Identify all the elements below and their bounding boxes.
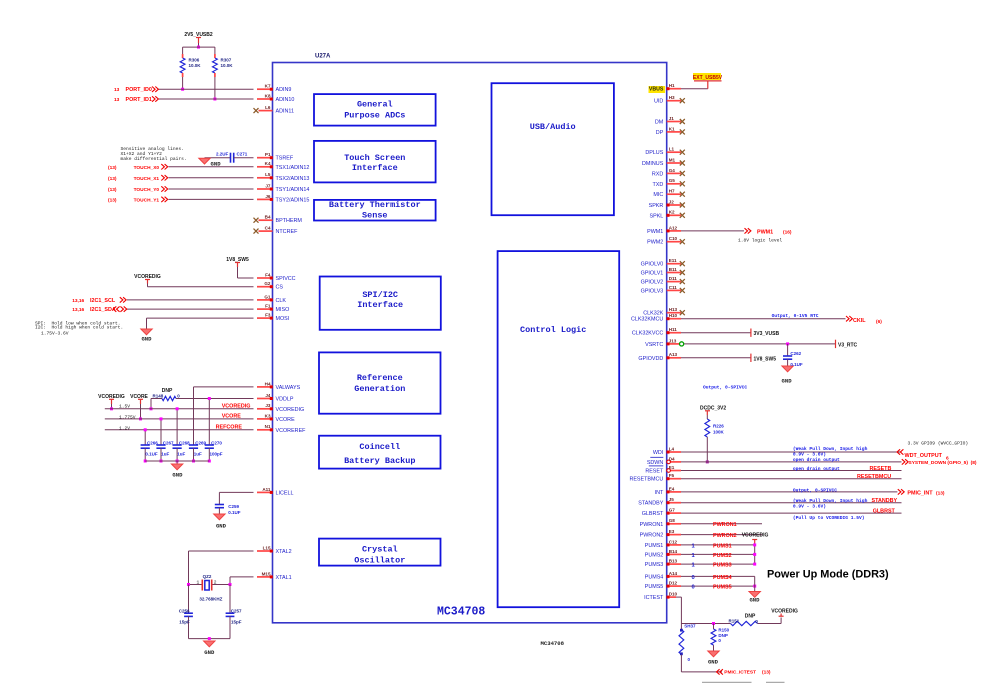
svg-text:V3_RTC: V3_RTC	[838, 342, 858, 348]
svg-text:0: 0	[692, 585, 695, 591]
svg-text:(13): (13)	[108, 165, 117, 171]
svg-text:1.5V: 1.5V	[119, 403, 130, 409]
svg-text:VDDLP: VDDLP	[276, 397, 294, 403]
svg-text:SPI/I2C: SPI/I2C	[362, 290, 398, 300]
svg-text:A14: A14	[669, 571, 678, 576]
svg-text:GND: GND	[141, 335, 152, 342]
svg-text:ADIN10: ADIN10	[276, 97, 295, 103]
svg-text:XTAL2: XTAL2	[276, 549, 292, 555]
svg-text:BPTHERM: BPTHERM	[276, 218, 303, 224]
svg-text:CLK32KMCU: CLK32KMCU	[631, 317, 663, 323]
svg-text:open drain output: open drain output	[793, 457, 840, 463]
svg-text:K1: K1	[669, 126, 675, 131]
svg-text:R307: R307	[221, 58, 232, 63]
svg-text:15pF: 15pF	[231, 620, 242, 625]
svg-text:Output, 0-SPIVCC: Output, 0-SPIVCC	[703, 384, 747, 390]
svg-text:(13): (13)	[762, 670, 771, 676]
svg-text:0.9V - 3.6V): 0.9V - 3.6V)	[793, 451, 826, 457]
svg-text:H11: H11	[669, 327, 678, 332]
svg-text:DM: DM	[655, 120, 664, 126]
svg-text:F1: F1	[265, 304, 271, 309]
svg-text:13,16: 13,16	[72, 307, 84, 313]
svg-text:RXD: RXD	[652, 171, 663, 177]
svg-text:MIC: MIC	[653, 192, 663, 198]
svg-text:2: 2	[214, 580, 217, 586]
svg-text:TOUCH_Y1: TOUCH_Y1	[134, 197, 160, 203]
svg-text:TSX1/ADIN12: TSX1/ADIN12	[276, 165, 310, 171]
svg-text:0.1UF: 0.1UF	[228, 510, 241, 515]
svg-text:B4: B4	[265, 215, 271, 220]
svg-text:U27A: U27A	[315, 54, 331, 60]
svg-text:PUMS5: PUMS5	[713, 585, 732, 591]
svg-text:SYSTEM_DOWN (GPIO_5) (8): SYSTEM_DOWN (GPIO_5) (8)	[909, 460, 977, 466]
svg-text:P1: P1	[265, 152, 271, 157]
svg-text:PUMS1: PUMS1	[645, 543, 664, 549]
svg-text:I2C1_SDA: I2C1_SDA	[90, 307, 116, 313]
svg-text:(6): (6)	[876, 319, 882, 325]
svg-text:L15: L15	[263, 545, 271, 550]
svg-text:H3: H3	[669, 95, 675, 100]
svg-text:10.0K: 10.0K	[221, 63, 234, 68]
svg-text:F3: F3	[265, 313, 271, 318]
svg-text:B13: B13	[669, 559, 678, 564]
svg-text:N1: N1	[265, 424, 271, 429]
svg-text:G1: G1	[264, 294, 271, 299]
svg-text:Interface: Interface	[352, 163, 398, 173]
svg-text:PWM2: PWM2	[647, 240, 663, 246]
svg-text:G5: G5	[669, 178, 676, 183]
svg-text:0: 0	[692, 575, 695, 581]
svg-text:L6: L6	[265, 105, 271, 110]
svg-text:TSY1/ADIN14: TSY1/ADIN14	[276, 187, 310, 193]
svg-text:2.2UF: 2.2UF	[216, 152, 229, 157]
svg-text:H10: H10	[669, 313, 678, 318]
svg-text:DCDC_3V2: DCDC_3V2	[700, 405, 726, 411]
svg-text:1: 1	[692, 553, 696, 559]
svg-text:C12: C12	[669, 539, 678, 544]
svg-text:Reference: Reference	[357, 373, 403, 383]
svg-text:make differential pairs.: make differential pairs.	[121, 156, 187, 162]
svg-text:TXD: TXD	[653, 182, 664, 188]
svg-text:GPIOLV2: GPIOLV2	[641, 280, 664, 286]
svg-text:RESETB: RESETB	[870, 466, 892, 472]
svg-text:R306: R306	[189, 58, 200, 63]
svg-text:J2: J2	[669, 199, 675, 204]
svg-text:Battery Backup: Battery Backup	[344, 456, 415, 466]
svg-text:GLBRST: GLBRST	[642, 511, 664, 517]
svg-text:1: 1	[692, 543, 696, 549]
svg-text:(16): (16)	[783, 229, 792, 235]
svg-text:PUMS1: PUMS1	[713, 544, 732, 550]
svg-text:10.0K: 10.0K	[189, 63, 202, 68]
svg-text:(13): (13)	[108, 187, 117, 193]
svg-text:1.2V: 1.2V	[119, 425, 130, 431]
svg-text:K2: K2	[669, 210, 675, 215]
svg-text:QZ2: QZ2	[203, 574, 212, 579]
svg-text:PUMS4: PUMS4	[645, 574, 664, 580]
svg-text:PWRON1: PWRON1	[713, 522, 737, 528]
svg-text:E11: E11	[669, 258, 677, 263]
svg-text:A13: A13	[669, 352, 678, 357]
svg-text:PUMS5: PUMS5	[645, 584, 664, 590]
svg-text:TSREF: TSREF	[276, 156, 294, 162]
svg-text:GND: GND	[749, 596, 760, 603]
svg-text:G8: G8	[669, 518, 676, 523]
svg-text:ICTEST: ICTEST	[644, 595, 664, 601]
svg-text:SH37: SH37	[684, 623, 696, 628]
svg-text:Coincell: Coincell	[359, 442, 400, 452]
svg-text:INT: INT	[655, 490, 664, 496]
svg-text:Purpose ADCs: Purpose ADCs	[344, 111, 405, 121]
svg-text:EXT_USB5V: EXT_USB5V	[693, 75, 723, 81]
svg-text:D11: D11	[669, 276, 678, 281]
svg-text:C259: C259	[228, 504, 239, 509]
svg-text:Touch Screen: Touch Screen	[344, 153, 405, 163]
svg-text:K8: K8	[265, 93, 271, 98]
svg-text:1uF: 1uF	[161, 451, 169, 456]
svg-text:GND: GND	[708, 658, 719, 665]
svg-text:0: 0	[718, 638, 721, 643]
svg-text:B11: B11	[669, 267, 678, 272]
svg-text:RESETBMCU: RESETBMCU	[857, 474, 891, 480]
svg-text:STANDBY: STANDBY	[638, 501, 663, 507]
svg-text:MISO: MISO	[276, 307, 290, 313]
svg-text:TOUCH_Y0: TOUCH_Y0	[134, 187, 160, 193]
svg-text:C257: C257	[231, 608, 242, 613]
svg-text:R151: R151	[729, 618, 740, 623]
svg-text:TOUCH_X0: TOUCH_X0	[134, 165, 160, 171]
svg-text:1uF: 1uF	[194, 451, 202, 456]
svg-text:0.1UF: 0.1UF	[790, 362, 803, 367]
svg-text:J5: J5	[669, 497, 675, 502]
svg-text:VCOREDIG: VCOREDIG	[771, 609, 798, 615]
svg-text:G7: G7	[669, 508, 676, 513]
svg-text:VBUS: VBUS	[649, 87, 664, 93]
svg-text:Output, 0-1V5 RTC: Output, 0-1V5 RTC	[772, 313, 819, 319]
svg-text:C4: C4	[265, 226, 271, 231]
svg-text:VCOREDIG: VCOREDIG	[742, 533, 769, 539]
svg-text:PWRON1: PWRON1	[640, 522, 664, 528]
svg-text:F5: F5	[669, 473, 675, 478]
svg-text:GND: GND	[216, 522, 227, 529]
svg-text:GLBRST: GLBRST	[873, 509, 896, 515]
svg-text:RESETBMCU: RESETBMCU	[629, 477, 663, 483]
svg-text:I2C1_SCL: I2C1_SCL	[90, 298, 116, 304]
svg-text:100pF: 100pF	[210, 451, 223, 456]
svg-text:0.9V - 3.6V): 0.9V - 3.6V)	[793, 503, 826, 509]
svg-text:SPIVCC: SPIVCC	[276, 276, 296, 282]
svg-text:C10: C10	[669, 236, 678, 241]
svg-text:B14: B14	[669, 549, 678, 554]
svg-text:WDI: WDI	[653, 450, 663, 456]
svg-text:VCORE: VCORE	[222, 414, 242, 420]
svg-text:PWRON2: PWRON2	[640, 533, 664, 539]
svg-text:LICELL: LICELL	[276, 490, 294, 496]
svg-text:Battery Thermistor: Battery Thermistor	[329, 200, 421, 210]
svg-text:PORT_ID0: PORT_ID0	[126, 87, 152, 93]
svg-text:R226: R226	[713, 424, 724, 429]
svg-text:K4: K4	[265, 161, 271, 166]
svg-text:C11: C11	[669, 285, 678, 290]
svg-text:C270: C270	[211, 441, 222, 446]
svg-text:H1: H1	[669, 83, 675, 88]
svg-text:K7: K7	[265, 84, 271, 89]
svg-text:A11: A11	[262, 487, 271, 492]
svg-text:DP: DP	[656, 130, 664, 136]
svg-text:SPKL: SPKL	[650, 213, 664, 219]
svg-text:TSX2/ADIN13: TSX2/ADIN13	[276, 176, 310, 182]
svg-text:SPKR: SPKR	[649, 203, 664, 209]
svg-text:open drain output: open drain output	[793, 466, 840, 472]
svg-text:CS: CS	[276, 285, 284, 291]
svg-text:J6: J6	[265, 194, 271, 199]
svg-text:32.768KHZ: 32.768KHZ	[199, 597, 222, 602]
svg-text:Power Up Mode (DDR3): Power Up Mode (DDR3)	[767, 569, 889, 581]
svg-text:J13: J13	[669, 338, 677, 343]
svg-text:0.1UF: 0.1UF	[145, 451, 158, 456]
svg-text:C267: C267	[163, 441, 174, 446]
svg-text:Crystal: Crystal	[362, 544, 398, 554]
svg-text:D10: D10	[669, 592, 678, 597]
svg-text:MC34708: MC34708	[437, 606, 485, 619]
svg-text:G4: G4	[669, 168, 676, 173]
svg-text:PUMS3: PUMS3	[645, 562, 664, 568]
svg-text:GPIOLV0: GPIOLV0	[641, 262, 664, 268]
svg-text:Sense: Sense	[362, 210, 388, 220]
svg-text:H7: H7	[669, 189, 675, 194]
svg-text:H13: H13	[669, 307, 678, 312]
svg-text:Generation: Generation	[354, 384, 405, 394]
svg-text:(13): (13)	[108, 176, 117, 182]
svg-text:G2: G2	[264, 281, 271, 286]
svg-text:13: 13	[114, 87, 120, 93]
svg-text:UID: UID	[654, 99, 663, 105]
svg-text:PWM1: PWM1	[757, 229, 773, 235]
svg-text:PUMS2: PUMS2	[713, 553, 732, 559]
svg-text:GND: GND	[172, 471, 183, 478]
svg-text:GPIOVDD: GPIOVDD	[638, 356, 663, 362]
svg-text:GPIOLV3: GPIOLV3	[641, 288, 664, 294]
svg-text:C262: C262	[790, 351, 801, 356]
svg-text:GND: GND	[782, 378, 793, 385]
svg-text:E4: E4	[669, 486, 675, 491]
svg-text:15pF: 15pF	[179, 620, 190, 625]
svg-text:PMIC_INT: PMIC_INT	[907, 491, 933, 497]
svg-text:D4: D4	[669, 456, 675, 461]
svg-text:NTCREF: NTCREF	[276, 229, 299, 235]
svg-text:L5: L5	[265, 172, 271, 177]
svg-text:J7: J7	[265, 183, 271, 188]
svg-text:100K: 100K	[713, 430, 725, 435]
svg-text:0: 0	[177, 394, 180, 399]
svg-text:CLK32KVCC: CLK32KVCC	[632, 331, 664, 337]
svg-text:D12: D12	[669, 581, 678, 586]
svg-text:3V3_VUSB: 3V3_VUSB	[754, 331, 780, 337]
svg-text:CKIL: CKIL	[853, 318, 866, 324]
svg-text:REFCORE: REFCORE	[216, 425, 243, 431]
svg-text:CLK: CLK	[276, 298, 287, 304]
svg-text:Output, 0-SPIVCC: Output, 0-SPIVCC	[793, 487, 837, 493]
svg-text:PUMS3: PUMS3	[713, 563, 732, 569]
svg-text:DPLUS: DPLUS	[645, 150, 663, 156]
svg-text:H4: H4	[265, 381, 271, 386]
svg-text:Oscillator: Oscillator	[354, 556, 405, 566]
svg-text:M15: M15	[262, 571, 271, 576]
svg-text:VCOREDIG: VCOREDIG	[222, 404, 251, 410]
svg-text:K3: K3	[265, 413, 271, 418]
svg-text:(Pull Up to VCOREDIG 1.5V): (Pull Up to VCOREDIG 1.5V)	[793, 515, 865, 521]
svg-text:VCOREREF: VCOREREF	[276, 428, 307, 434]
svg-text:J4: J4	[265, 393, 271, 398]
svg-text:E3: E3	[669, 529, 675, 534]
svg-text:C268: C268	[179, 441, 190, 446]
svg-text:A12: A12	[669, 225, 678, 230]
svg-text:1.8V logic level: 1.8V logic level	[738, 238, 782, 244]
svg-text:TSY2/ADIN15: TSY2/ADIN15	[276, 197, 310, 203]
svg-text:GPIOLV1: GPIOLV1	[641, 271, 664, 277]
svg-text:1uF: 1uF	[177, 451, 185, 456]
svg-text:DMINUS: DMINUS	[642, 161, 664, 167]
svg-text:USB/Audio: USB/Audio	[530, 122, 576, 132]
svg-text:J1: J1	[669, 116, 675, 121]
svg-text:F4: F4	[265, 272, 271, 277]
svg-text:ADIN9: ADIN9	[276, 87, 292, 93]
svg-text:GND: GND	[204, 649, 215, 656]
svg-text:3.3V GPIO9 (WVCC_GPIO): 3.3V GPIO9 (WVCC_GPIO)	[908, 441, 969, 447]
svg-text:L1: L1	[669, 147, 675, 152]
svg-text:0: 0	[688, 657, 691, 662]
svg-text:1: 1	[197, 580, 200, 586]
svg-text:13: 13	[114, 97, 120, 103]
svg-text:General: General	[357, 100, 393, 110]
svg-text:M1: M1	[669, 157, 676, 162]
svg-text:(13): (13)	[108, 197, 117, 203]
svg-text:DNP: DNP	[745, 613, 756, 619]
svg-text:1.775V: 1.775V	[119, 414, 136, 420]
svg-text:I2C: Hold high when cold star: I2C: Hold high when cold start.	[35, 325, 123, 331]
svg-text:STANDBY: STANDBY	[872, 498, 898, 504]
svg-text:Interface: Interface	[357, 300, 403, 310]
svg-text:MC34708: MC34708	[541, 640, 565, 647]
svg-text:PORT_ID1: PORT_ID1	[126, 97, 152, 103]
svg-text:TOUCH_X1: TOUCH_X1	[134, 176, 160, 182]
svg-text:RESET: RESET	[645, 469, 664, 475]
svg-text:VCORE: VCORE	[276, 417, 296, 423]
svg-text:ADIN11: ADIN11	[276, 109, 294, 115]
svg-text:PUMS2: PUMS2	[645, 552, 664, 558]
svg-text:E1: E1	[669, 465, 675, 470]
svg-text:L4: L4	[669, 446, 675, 451]
svg-text:PWM1: PWM1	[647, 229, 663, 235]
svg-text:13,16: 13,16	[72, 298, 84, 304]
svg-text:R148: R148	[153, 394, 164, 399]
svg-text:(Weak Pull Down, Input high: (Weak Pull Down, Input high	[793, 446, 868, 452]
svg-text:MOSI: MOSI	[276, 316, 290, 322]
svg-text:PUMS4: PUMS4	[713, 575, 732, 581]
svg-text:C256: C256	[179, 608, 190, 613]
svg-text:Control Logic: Control Logic	[520, 325, 586, 335]
svg-text:DNP: DNP	[162, 388, 173, 394]
svg-text:C271: C271	[237, 152, 248, 157]
svg-text:PMIC_ICTEST: PMIC_ICTEST	[724, 670, 756, 676]
svg-text:SDWN: SDWN	[647, 460, 664, 466]
svg-text:(Weak Pull Down, Input high: (Weak Pull Down, Input high	[793, 498, 868, 504]
svg-text:1: 1	[692, 563, 696, 569]
svg-text:VCOREDIG: VCOREDIG	[276, 407, 305, 413]
svg-text:PWRON2: PWRON2	[713, 533, 737, 539]
svg-text:(13): (13)	[936, 491, 945, 497]
svg-text:VALWAYS: VALWAYS	[276, 385, 301, 391]
svg-text:J3: J3	[265, 403, 271, 408]
svg-text:WDT_OUTPUT: WDT_OUTPUT	[905, 453, 943, 459]
svg-text:1.75V-3.6V: 1.75V-3.6V	[41, 330, 69, 336]
svg-text:XTAL1: XTAL1	[276, 575, 292, 581]
svg-text:VSRTC: VSRTC	[645, 342, 663, 348]
svg-text:1V8_SW5: 1V8_SW5	[754, 356, 777, 362]
